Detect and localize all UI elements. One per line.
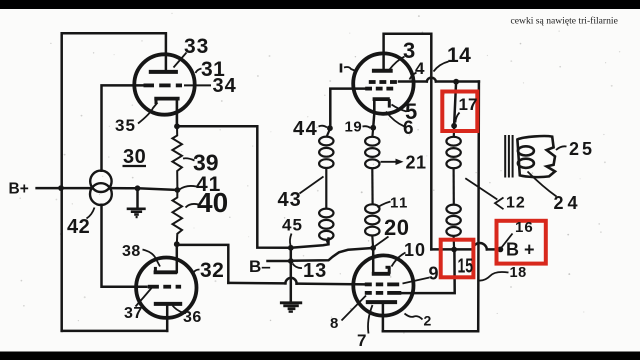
pointer for label 37 [136,288,152,307]
pointer for label 42 [87,208,95,219]
pointer for label 44 [319,126,328,128]
tube V4 cathode 7 [366,300,397,304]
pointer for label 31 [196,69,202,74]
junction dot node above V3 [174,241,180,247]
tube V2 grid 4 upper dashes [369,80,397,84]
wire: V2 grid2 lead left and drop to coil 43 top [330,89,365,129]
svg-text:14: 14 [447,44,471,67]
svg-text:43: 43 [278,189,302,211]
tube V3 plate 36 [154,302,182,306]
inductor 19/21/11/20 chain [365,128,379,248]
svg-text:40: 40 [197,187,228,218]
svg-text:7: 7 [357,331,366,350]
pointer for label 8 [342,296,367,321]
svg-text:13: 13 [303,260,327,282]
wire: right vertical from grid1 wire down to V4 bottom [383,82,479,332]
wire: V2 grid1 lead right with hop over loop drop [399,80,427,83]
tube V3 cathode 38 [154,267,177,272]
svg-text:36: 36 [183,309,202,326]
wire: ground stub at node 13 area left [136,188,139,208]
wire: B+ feed right segment to node 41 [110,188,178,190]
wire: coupler 42 to V3 grid [102,205,147,287]
inductor 43/45 chain [319,128,333,244]
svg-text:11: 11 [390,195,409,212]
pointer for label 38 [143,250,161,267]
wire: B- stub [268,260,291,263]
tube V4 grid 9 upper dashes [365,282,399,286]
svg-text:16: 16 [515,219,534,236]
junction dot node 13 [288,258,294,264]
red highlight box 15 [441,240,474,278]
pointer for label 10 [392,253,406,267]
pointer for label 2 [405,314,423,320]
junction dot ground left [135,185,141,191]
resistor R40 [173,190,183,244]
pointer for label 20 [375,237,389,247]
pointer for label 13 [293,264,303,269]
svg-text:12: 12 [506,195,526,212]
svg-text:19: 19 [345,119,363,136]
pointer for label 9 [403,278,430,284]
wire: node 13 down to ground [290,261,293,302]
svg-text:45: 45 [282,216,303,235]
pointer for label 35 [138,103,158,124]
wire: V2 cathode drop to coil 19 top [373,113,374,128]
pointer for label 40 [186,204,199,208]
pointer for label 5 [392,105,407,112]
tube V1 grid 34 dashes [144,84,183,88]
tube V2 plate 3 [372,69,393,73]
wire: V4 cathode lead down [382,302,385,331]
junction dot B+ left [58,185,64,191]
wire: V2 plate loop and long drop to box15 line [384,34,432,250]
pointer for label 25 [556,146,567,150]
svg-text:39: 39 [193,150,219,176]
junction dot node 45 [288,245,294,251]
letterbox bottom bar [0,352,640,360]
junction dot node 15 [451,247,457,253]
letterbox top bar [0,0,640,9]
tube V4 grid lower dashes [365,291,402,295]
svg-text:42: 42 [67,216,90,238]
wire: V1 grid lead left and drop to coupler [102,85,147,170]
svg-text:37: 37 [124,305,143,322]
ground symbol B- [280,303,302,312]
tube V2 cathode 5 [373,99,390,113]
transformer 24/25 winding [517,136,555,177]
transformer 24 core [505,135,512,178]
tube V4 element 10 [372,267,391,274]
pointer for label 19 [363,126,371,128]
inductor 12/17 chain [446,126,460,250]
pointer for label 43 [300,177,324,194]
svg-text:cewki są nawięte tri-filarnie: cewki są nawięte tri-filarnie [511,16,618,27]
red highlight box 16 B+ [497,221,546,264]
junction dot node 17 [451,123,457,129]
svg-text:32: 32 [200,259,224,282]
svg-text:25: 25 [569,139,595,159]
wire: V1 plate top loop [62,33,166,331]
pointer for label 32 [194,270,200,273]
svg-text:B–: B– [249,257,271,276]
pointer for label 24 [528,172,557,197]
svg-text:38: 38 [122,243,141,260]
wire: node 14 slant drop to node 17 [454,82,456,126]
underline for 30 [123,165,147,167]
pointer for label 12 [465,178,497,199]
ground symbol left [127,209,146,217]
tube V2 grid lower dashes [365,87,393,91]
wire: coil12 bottom node down and left to V4 grid2 [402,250,455,294]
wire: B- bus to coil 20 bottom node [291,248,373,261]
svg-text:18: 18 [510,265,527,281]
tube V1 envelope [134,54,194,114]
tube V1 plate 33 [149,70,178,74]
wire: bottom wire V3 [62,330,168,333]
svg-text:3: 3 [403,38,415,63]
svg-text:15: 15 [458,256,474,278]
pointer for label 18 [479,272,509,281]
resistor R39 [172,126,182,190]
svg-text:33: 33 [184,35,209,58]
pointer for label 11 [378,202,391,208]
junction dot node 44 [327,125,333,131]
pointer for label 33 [174,53,187,68]
pointer for label 3 [390,57,405,70]
pointer for label 14 [434,62,449,72]
wire: B+ feed left segment [37,187,93,190]
pointer for label 39 [183,158,195,160]
tube V4 envelope [353,255,413,315]
wire: V1 cathode node to right [177,126,291,248]
wire: V3 plate lead down [166,304,169,331]
svg-text:B+: B+ [9,181,29,198]
junction dot node 20 [370,245,376,251]
svg-text:10: 10 [404,240,426,260]
svg-text:35: 35 [115,116,136,135]
pointer for label 41 [180,186,197,190]
label 1 stroke [340,64,343,73]
pointer for label 1 [344,67,355,71]
junction dot node 41 [175,187,181,193]
pointer for label 36 [173,306,183,313]
pointer arrow for label 21 [381,161,400,163]
tube V3 envelope [136,258,196,318]
junction dot node 14 [453,79,459,85]
junction dot V1 cathode node [174,123,180,129]
wire: bus from node 45 up to coil 43 bottom [291,239,329,248]
coupler 42 lower circle [90,183,112,205]
svg-text:6: 6 [403,118,414,139]
pointer for label 16 [502,234,513,248]
wire: node bottom of R40 right to V4 grid, with hop over ground wire [177,245,229,283]
svg-text:21: 21 [406,153,427,173]
wire: node 41-40 bottom to V3 plate lead [176,244,179,272]
tube V1 cathode 35 [154,99,179,127]
svg-text:2: 2 [424,313,432,329]
wire: node 45 down to node 13 [290,248,293,261]
svg-text:8: 8 [330,315,338,332]
svg-text:30: 30 [123,146,146,168]
pointer for label 7 [368,305,373,334]
coupler 42 upper circle [90,171,111,192]
tube V3 grid 37 dashes [148,285,181,289]
tube V1 grid right lead to 34 [184,84,211,86]
svg-text:17: 17 [459,95,478,114]
svg-text:24: 24 [554,193,582,213]
tube V2 envelope [353,53,413,113]
svg-text:34: 34 [213,75,237,97]
wire: box15 horizontal from loop drop to B+ with hop [431,248,472,251]
pointer for label 45 [290,234,292,246]
junction dot B+ right terminal [498,247,504,253]
svg-text:20: 20 [384,215,409,240]
junction dot node 19 [370,125,376,131]
svg-text:44: 44 [293,118,318,140]
pointer for label 17 [456,113,460,123]
pointer for label 6 [386,112,405,127]
pointer for label 4 [410,73,417,80]
wire: V4 plate lead from node 20 [372,248,375,273]
svg-text:4: 4 [415,59,425,78]
svg-text:B +: B + [506,240,535,260]
red highlight box 17 [442,92,477,132]
svg-text:9: 9 [429,264,439,284]
